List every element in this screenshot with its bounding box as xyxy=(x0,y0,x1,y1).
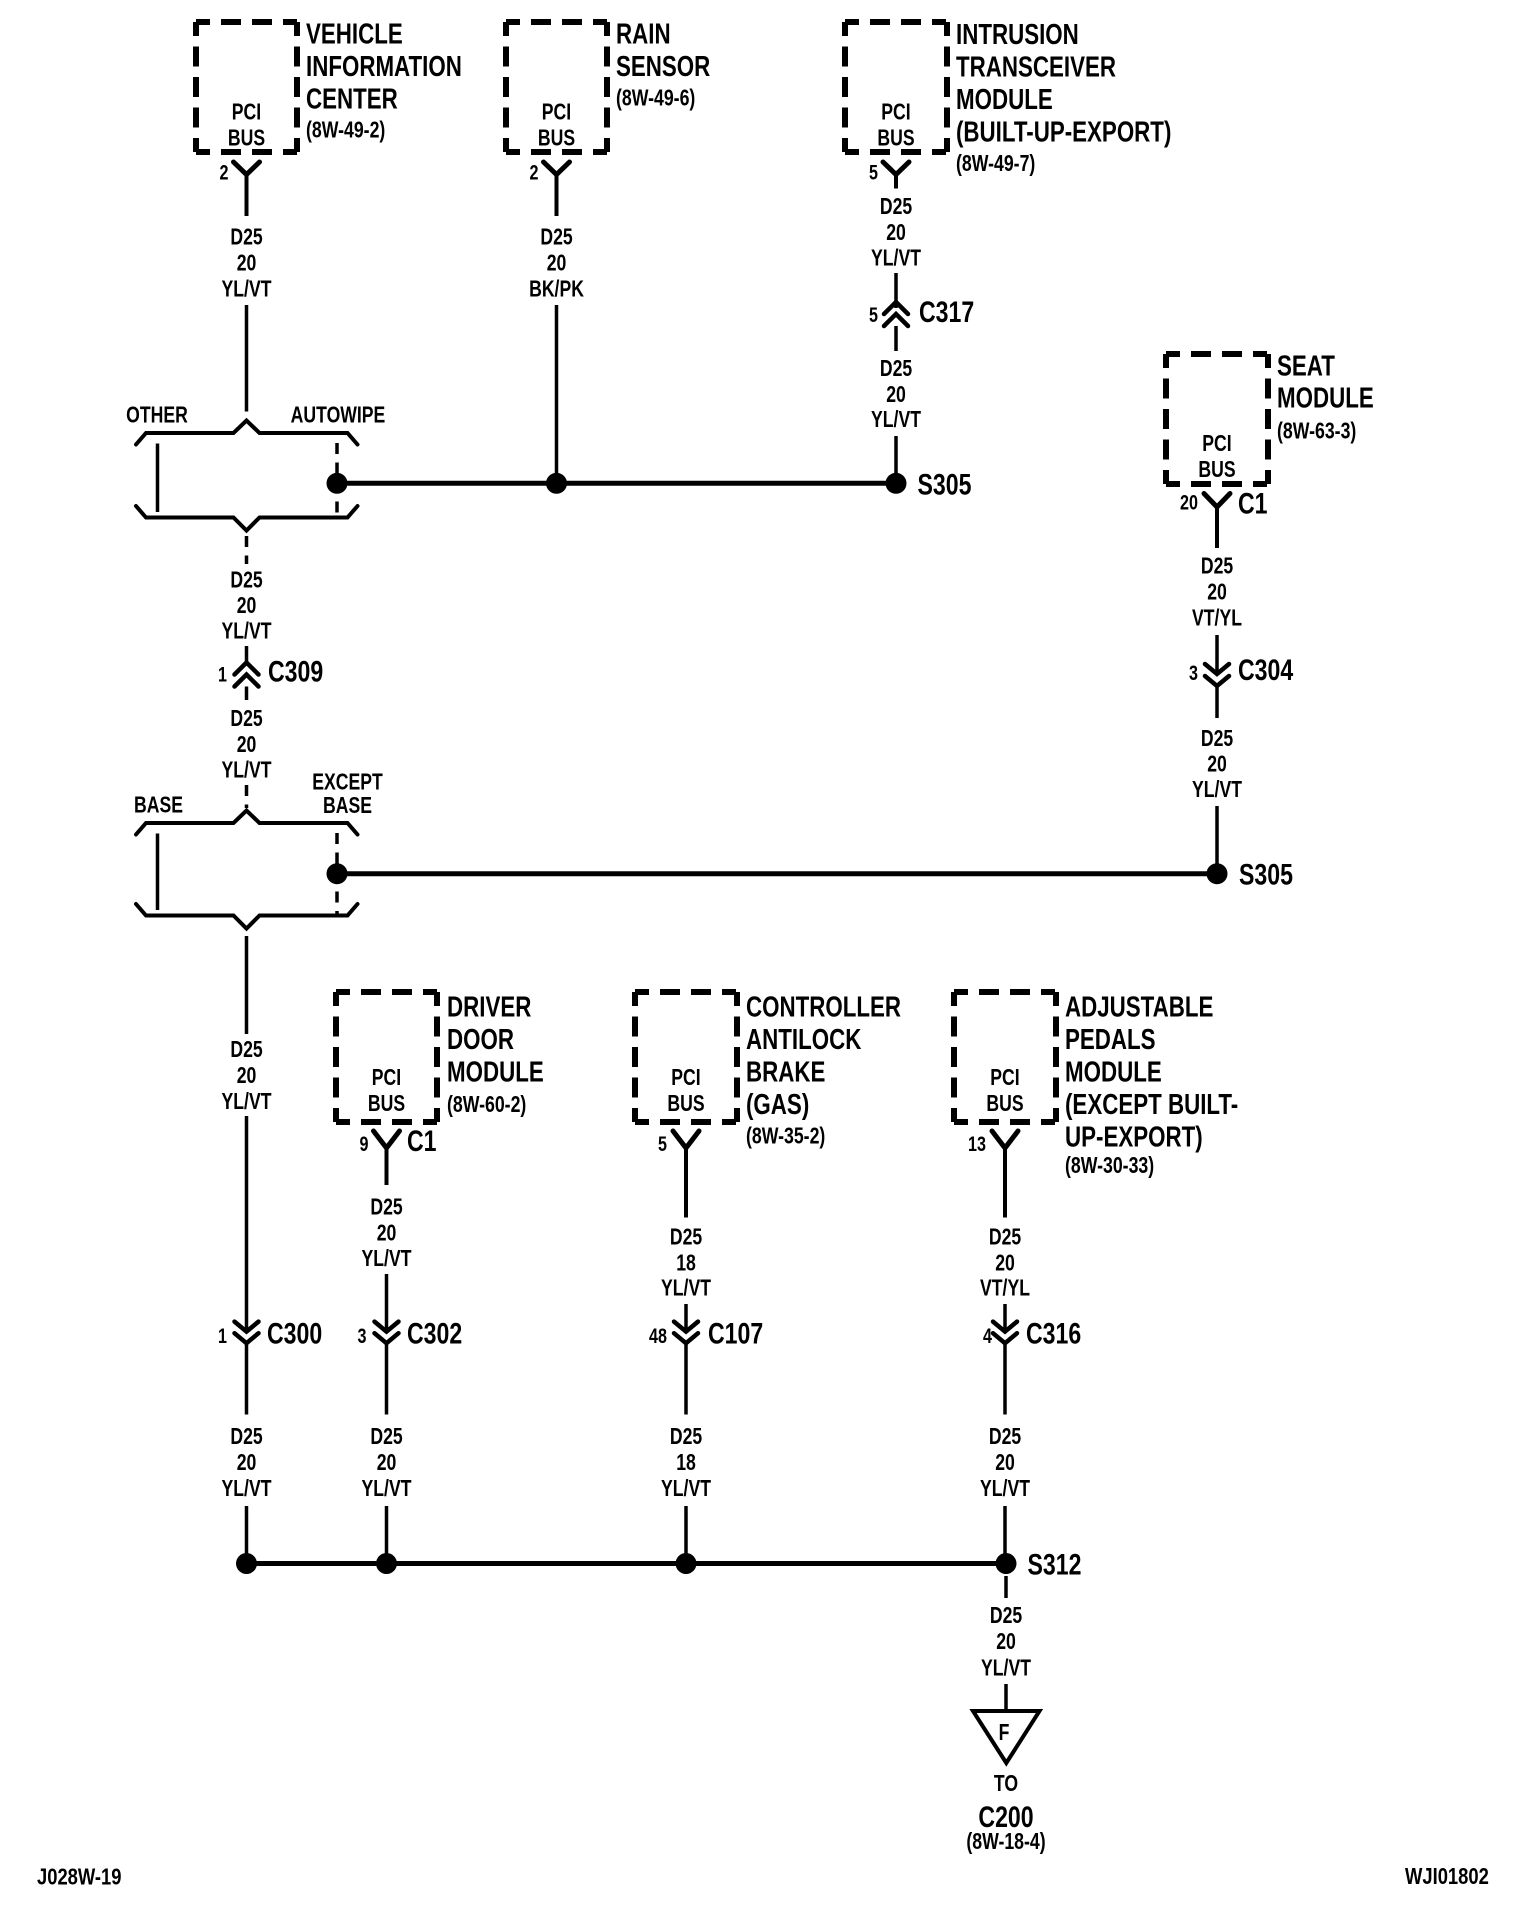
connector Y at Pedals xyxy=(992,1131,1018,1148)
brace bottom BASE/EXCEPT BASE xyxy=(136,904,358,929)
wire below C300 xyxy=(245,1343,249,1414)
node junction EXCEPT BASE xyxy=(327,863,348,884)
svg-text:C300: C300 xyxy=(267,1317,322,1351)
svg-text:C304: C304 xyxy=(1238,653,1293,687)
svg-text:YL/VT: YL/VT xyxy=(661,1275,711,1301)
svg-text:YL/VT: YL/VT xyxy=(222,618,272,644)
wire below C317 xyxy=(894,326,898,351)
svg-text:TRANSCEIVER: TRANSCEIVER xyxy=(956,52,1116,83)
wire dashed above brace BASE xyxy=(245,785,249,808)
svg-text:CONTROLLER: CONTROLLER xyxy=(746,992,901,1023)
svg-text:BASE: BASE xyxy=(323,793,372,819)
svg-text:D25: D25 xyxy=(370,1424,402,1450)
svg-text:YL/VT: YL/VT xyxy=(871,407,921,433)
svg-text:YL/VT: YL/VT xyxy=(222,1476,272,1502)
svg-text:BK/PK: BK/PK xyxy=(529,276,584,302)
svg-text:PEDALS: PEDALS xyxy=(1065,1024,1156,1055)
wire into off-page connector F xyxy=(1004,1684,1008,1711)
svg-text:20: 20 xyxy=(237,593,257,619)
svg-text:MODULE: MODULE xyxy=(1065,1057,1162,1088)
wire below brace BASE xyxy=(245,936,249,1034)
wire label D25 20 YL/VT (below brace 1) xyxy=(222,567,272,644)
svg-text:SENSOR: SENSOR xyxy=(616,51,711,82)
svg-text:MODULE: MODULE xyxy=(1277,383,1374,414)
svg-text:20: 20 xyxy=(547,250,567,276)
svg-text:D25: D25 xyxy=(230,567,262,593)
node splice S312 xyxy=(996,1553,1017,1574)
wire label D25 20 VT/YL (Pedals) xyxy=(980,1224,1030,1301)
wire into S312 bus (col A) xyxy=(245,1506,249,1564)
connector C107 xyxy=(674,1322,698,1344)
wire label D25 20 VT/YL (Seat) xyxy=(1192,553,1242,631)
svg-text:YL/VT: YL/VT xyxy=(661,1476,711,1502)
svg-text:SEAT: SEAT xyxy=(1277,351,1335,382)
svg-text:PCI: PCI xyxy=(1202,431,1231,457)
wire label D25 20 YL/VT (below C317) xyxy=(871,356,921,433)
wire below C304 xyxy=(1215,686,1219,718)
svg-text:20: 20 xyxy=(886,220,906,246)
connector Y at VIC xyxy=(234,162,260,175)
module Driver Door Module box xyxy=(336,992,437,1122)
wire label D25 18 YL/VT (above S312 bus, col F) xyxy=(661,1424,711,1502)
svg-text:(8W-63-3): (8W-63-3) xyxy=(1277,418,1356,444)
svg-text:YL/VT: YL/VT xyxy=(1192,777,1242,803)
wire below C302 xyxy=(385,1343,389,1414)
svg-text:PCI: PCI xyxy=(372,1065,401,1091)
svg-text:YL/VT: YL/VT xyxy=(362,1246,412,1272)
svg-text:BUS: BUS xyxy=(538,125,575,151)
module Driver Door Module name xyxy=(447,992,544,1118)
svg-text:20: 20 xyxy=(1180,491,1198,515)
connector C309 xyxy=(235,663,259,687)
svg-text:YL/VT: YL/VT xyxy=(362,1476,412,1502)
svg-text:(GAS): (GAS) xyxy=(746,1089,809,1120)
svg-text:(EXCEPT BUILT-: (EXCEPT BUILT- xyxy=(1065,1089,1238,1120)
svg-text:BUS: BUS xyxy=(228,125,265,151)
svg-text:PCI: PCI xyxy=(671,1065,700,1091)
module Vehicle Information Center box xyxy=(196,22,297,152)
svg-text:BUS: BUS xyxy=(368,1091,405,1117)
connector C1 at Seat Module xyxy=(1204,494,1230,508)
wire below C309 xyxy=(245,687,249,701)
svg-text:F: F xyxy=(999,1720,1010,1746)
svg-text:D25: D25 xyxy=(230,224,262,250)
svg-text:D25: D25 xyxy=(989,1424,1021,1450)
svg-text:S305: S305 xyxy=(1239,858,1293,892)
svg-text:RAIN: RAIN xyxy=(616,19,671,50)
wire into C309 xyxy=(245,646,249,664)
svg-text:5: 5 xyxy=(869,304,878,328)
wire into C302 xyxy=(385,1274,389,1331)
svg-text:YL/VT: YL/VT xyxy=(871,245,921,271)
wire into S305 splice xyxy=(894,436,898,478)
connector C302 xyxy=(375,1322,399,1344)
wire option EXCEPT BASE dashed xyxy=(335,833,339,915)
svg-text:(8W-49-6): (8W-49-6) xyxy=(616,85,695,111)
svg-text:D25: D25 xyxy=(670,1424,702,1450)
wire into C107 xyxy=(684,1304,688,1331)
svg-text:20: 20 xyxy=(237,1063,257,1089)
wire into C304 xyxy=(1215,635,1219,674)
svg-text:PCI: PCI xyxy=(881,99,910,125)
connector C316 xyxy=(993,1322,1017,1344)
svg-text:D25: D25 xyxy=(670,1224,702,1250)
svg-text:J028W-19: J028W-19 xyxy=(37,1865,121,1890)
svg-text:YL/VT: YL/VT xyxy=(222,276,272,302)
off-page connector F triangle xyxy=(973,1711,1040,1763)
svg-text:C302: C302 xyxy=(407,1317,462,1351)
node junction col A xyxy=(236,1553,257,1574)
connector Y at Rain Sensor xyxy=(544,162,570,175)
svg-text:D25: D25 xyxy=(1201,553,1233,579)
svg-text:PCI: PCI xyxy=(542,99,571,125)
svg-text:18: 18 xyxy=(676,1250,696,1276)
svg-text:20: 20 xyxy=(995,1250,1015,1276)
connector Y at CAB xyxy=(673,1131,699,1148)
wire Rain Sensor to S305 bus xyxy=(555,305,559,483)
svg-text:VT/YL: VT/YL xyxy=(1192,605,1242,631)
node splice S305 (upper) xyxy=(886,473,907,494)
connector C300 xyxy=(235,1322,259,1344)
wire label D25 20 YL/VT (Intrusion) xyxy=(871,194,921,272)
svg-text:C317: C317 xyxy=(919,295,974,329)
wire into S312 bus (col F) xyxy=(684,1506,688,1564)
module Intrusion Transceiver box xyxy=(845,22,947,152)
module Adjustable Pedals box xyxy=(954,992,1056,1122)
wire into C316 xyxy=(1003,1304,1007,1331)
svg-text:BASE: BASE xyxy=(134,792,183,818)
svg-text:PCI: PCI xyxy=(990,1065,1019,1091)
svg-text:S312: S312 xyxy=(1028,1548,1082,1582)
wire S305 bus (lower) xyxy=(337,871,1217,876)
node junction col F xyxy=(676,1553,697,1574)
svg-text:D25: D25 xyxy=(880,356,912,382)
svg-text:(8W-60-2): (8W-60-2) xyxy=(447,1092,526,1118)
svg-text:(BUILT-UP-EXPORT): (BUILT-UP-EXPORT) xyxy=(956,117,1171,148)
svg-text:4: 4 xyxy=(983,1325,992,1349)
svg-text:YL/VT: YL/VT xyxy=(980,1476,1030,1502)
module Controller Antilock Brake name xyxy=(746,992,901,1149)
module Seat Module name xyxy=(1277,351,1374,444)
connector Y at Intrusion xyxy=(883,162,909,175)
svg-text:BRAKE: BRAKE xyxy=(746,1057,825,1088)
brace top OTHER/AUTOWIPE xyxy=(136,421,358,445)
wire label D25 20 YL/VT (BASE path) xyxy=(222,1037,272,1115)
svg-text:20: 20 xyxy=(996,1629,1016,1655)
svg-text:D25: D25 xyxy=(1201,726,1233,752)
wire label D25 20 YL/VT (below S312) xyxy=(981,1603,1031,1682)
wire label D25 20 YL/VT (below C304) xyxy=(1192,726,1242,803)
wire into S305 splice (lower) xyxy=(1215,806,1219,866)
svg-text:9: 9 xyxy=(360,1133,369,1157)
svg-text:ANTILOCK: ANTILOCK xyxy=(746,1024,862,1055)
wire option AUTOWIPE dashed xyxy=(335,443,339,514)
wire label D25 20 YL/VT (Driver Door) xyxy=(362,1194,412,1272)
svg-text:1: 1 xyxy=(218,663,227,687)
module Seat Module box xyxy=(1166,354,1268,484)
svg-text:OTHER: OTHER xyxy=(126,402,188,428)
wire label to brace OTHER/AUTOWIPE xyxy=(245,305,249,412)
wire label D25 20 YL/VT (above S312 bus, col E) xyxy=(362,1424,412,1502)
svg-text:5: 5 xyxy=(869,161,878,185)
svg-text:C107: C107 xyxy=(708,1317,763,1351)
svg-text:DRIVER: DRIVER xyxy=(447,992,532,1023)
connector C1 at Driver Door xyxy=(374,1131,400,1148)
svg-text:13: 13 xyxy=(968,1133,986,1157)
node junction AUTOWIPE xyxy=(327,473,348,494)
svg-text:D25: D25 xyxy=(230,1424,262,1450)
svg-text:20: 20 xyxy=(237,250,257,276)
module Vehicle Information Center name xyxy=(306,19,462,143)
wire into C317 xyxy=(894,273,898,308)
svg-text:S305: S305 xyxy=(918,468,972,502)
svg-text:D25: D25 xyxy=(230,706,262,732)
wire into splice S312 xyxy=(1003,1506,1007,1555)
module Adjustable Pedals name xyxy=(1065,992,1238,1179)
brace top BASE/EXCEPT BASE xyxy=(136,811,358,835)
wire below C107 xyxy=(684,1343,688,1414)
label TO C200 (8W-18-4) xyxy=(966,1771,1045,1855)
connector C304 xyxy=(1205,664,1229,686)
wire dashed below brace xyxy=(245,536,249,564)
svg-text:D25: D25 xyxy=(989,1224,1021,1250)
svg-text:1: 1 xyxy=(218,1325,227,1349)
svg-text:C309: C309 xyxy=(268,655,323,689)
svg-text:TO: TO xyxy=(994,1771,1018,1797)
svg-text:WJI01802: WJI01802 xyxy=(1405,1864,1489,1889)
svg-text:20: 20 xyxy=(1207,579,1227,605)
wire label D25 20 YL/VT (VIC) xyxy=(222,224,272,302)
wire into C300 xyxy=(245,1116,249,1331)
svg-text:2: 2 xyxy=(220,161,229,185)
wire below S312 xyxy=(1004,1576,1008,1598)
svg-text:20: 20 xyxy=(237,732,257,758)
svg-text:D25: D25 xyxy=(370,1194,402,1220)
svg-text:D25: D25 xyxy=(880,194,912,220)
svg-text:CENTER: CENTER xyxy=(306,84,398,115)
svg-text:BUS: BUS xyxy=(877,125,914,151)
svg-text:5: 5 xyxy=(658,1133,667,1157)
svg-text:20: 20 xyxy=(995,1450,1015,1476)
svg-text:BUS: BUS xyxy=(986,1091,1023,1117)
wire label D25 20 YL/VT (above S312, col G) xyxy=(980,1424,1030,1502)
svg-text:BUS: BUS xyxy=(667,1091,704,1117)
svg-text:48: 48 xyxy=(649,1325,667,1349)
svg-text:C1: C1 xyxy=(407,1124,437,1158)
svg-text:2: 2 xyxy=(530,161,539,185)
svg-text:ADJUSTABLE: ADJUSTABLE xyxy=(1065,992,1213,1023)
module Controller Antilock Brake box xyxy=(635,992,737,1122)
svg-text:VT/YL: VT/YL xyxy=(980,1275,1030,1301)
svg-text:C316: C316 xyxy=(1026,1317,1081,1351)
svg-text:YL/VT: YL/VT xyxy=(981,1655,1031,1681)
svg-text:INTRUSION: INTRUSION xyxy=(956,19,1079,50)
wire below C316 xyxy=(1003,1343,1007,1414)
svg-text:(8W-35-2): (8W-35-2) xyxy=(746,1123,825,1149)
node junction rain sensor xyxy=(546,473,567,494)
svg-text:20: 20 xyxy=(886,382,906,408)
svg-text:YL/VT: YL/VT xyxy=(222,1089,272,1115)
svg-text:3: 3 xyxy=(1189,662,1198,686)
svg-text:MODULE: MODULE xyxy=(447,1057,544,1088)
svg-text:VEHICLE: VEHICLE xyxy=(306,19,403,50)
svg-text:20: 20 xyxy=(377,1450,397,1476)
label EXCEPT BASE xyxy=(312,769,383,819)
svg-text:UP-EXPORT): UP-EXPORT) xyxy=(1065,1122,1203,1153)
svg-text:20: 20 xyxy=(1207,751,1227,777)
wire option BASE xyxy=(156,834,160,911)
svg-text:INFORMATION: INFORMATION xyxy=(306,51,462,82)
svg-text:(8W-18-4): (8W-18-4) xyxy=(966,1829,1045,1855)
brace bottom OTHER/AUTOWIPE xyxy=(136,506,358,531)
connector C317 xyxy=(884,302,908,326)
module Intrusion Transceiver name xyxy=(956,19,1171,176)
wire label D25 18 YL/VT (CAB) xyxy=(661,1224,711,1301)
svg-text:20: 20 xyxy=(377,1220,397,1246)
svg-text:YL/VT: YL/VT xyxy=(222,757,272,783)
svg-text:(8W-30-33): (8W-30-33) xyxy=(1065,1153,1154,1179)
svg-text:20: 20 xyxy=(237,1450,257,1476)
svg-text:MODULE: MODULE xyxy=(956,84,1053,115)
wire S305 bus (upper) xyxy=(337,481,896,486)
svg-text:D25: D25 xyxy=(540,224,572,250)
module Rain Sensor box xyxy=(506,22,607,152)
svg-text:BUS: BUS xyxy=(1198,457,1235,483)
wire S312 bus xyxy=(247,1561,1007,1566)
svg-text:(8W-49-7): (8W-49-7) xyxy=(956,151,1035,177)
node junction col E xyxy=(376,1553,397,1574)
svg-text:D25: D25 xyxy=(230,1037,262,1063)
svg-text:C1: C1 xyxy=(1238,487,1268,521)
wire option OTHER xyxy=(156,444,160,513)
svg-text:AUTOWIPE: AUTOWIPE xyxy=(291,402,386,428)
wire label D25 20 YL/VT (below C309) xyxy=(222,706,272,784)
svg-text:DOOR: DOOR xyxy=(447,1024,514,1055)
svg-text:(8W-49-2): (8W-49-2) xyxy=(306,117,385,143)
module Rain Sensor name xyxy=(616,19,711,111)
svg-text:D25: D25 xyxy=(990,1603,1022,1629)
wire label D25 20 BK/PK (Rain Sensor) xyxy=(529,224,584,302)
wire label D25 20 YL/VT (above S312 bus, col A) xyxy=(222,1424,272,1502)
svg-text:PCI: PCI xyxy=(232,99,261,125)
svg-text:EXCEPT: EXCEPT xyxy=(312,769,383,795)
wire into S312 bus (col E) xyxy=(385,1506,389,1564)
svg-text:3: 3 xyxy=(358,1325,367,1349)
svg-text:18: 18 xyxy=(676,1450,696,1476)
node splice S305 (lower) xyxy=(1207,863,1228,884)
